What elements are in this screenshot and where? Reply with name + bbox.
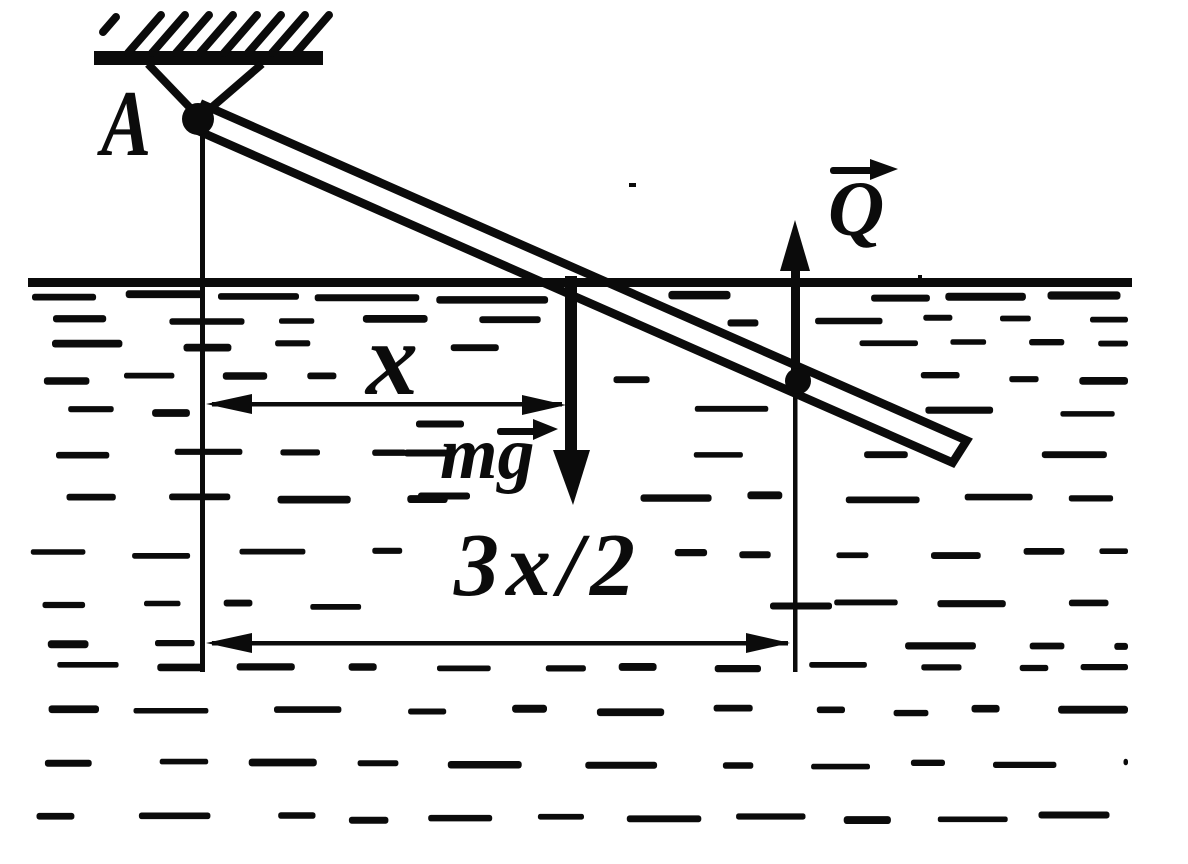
ceiling bar <box>94 51 323 65</box>
svg-text:Q: Q <box>828 165 884 252</box>
svg-text:mg: mg <box>440 413 535 495</box>
pin at A <box>182 103 214 135</box>
weight arrow mg <box>553 276 590 505</box>
pin support triangle <box>148 64 262 114</box>
speck above rod <box>629 183 636 187</box>
vertical reference line from A <box>200 131 205 672</box>
vector bar over Q <box>830 159 898 180</box>
water dashed shading <box>31 290 1128 824</box>
svg-text:x: x <box>364 302 418 417</box>
ceiling hatching <box>103 15 329 53</box>
vector bar over g <box>497 419 558 440</box>
svg-text:A: A <box>97 72 152 176</box>
dimension arrow x <box>206 394 566 415</box>
application point dot <box>785 368 811 394</box>
speck right of Q <box>918 275 922 279</box>
dimension arrow 3x/2 <box>206 633 790 653</box>
vertical reference line at Q <box>793 382 798 672</box>
buoyancy arrow Q <box>780 220 810 384</box>
water surface line <box>28 278 1132 287</box>
svg-text:3x/2: 3x/2 <box>453 516 642 615</box>
rod AB <box>194 105 967 463</box>
